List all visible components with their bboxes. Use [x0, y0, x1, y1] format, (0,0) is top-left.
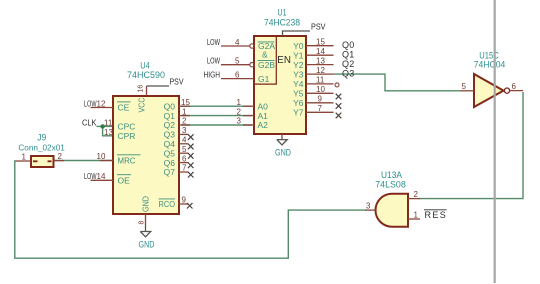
svg-text:2: 2	[58, 152, 63, 161]
power symbol PSV at U1	[283, 22, 326, 37]
svg-text:1: 1	[414, 210, 419, 219]
svg-text:5: 5	[462, 82, 467, 91]
svg-text:LOW: LOW	[84, 99, 97, 108]
U1 pin11 Y4 open end	[293, 76, 339, 90]
svg-text:Q0: Q0	[342, 40, 354, 50]
svg-text:3: 3	[182, 126, 187, 135]
wire Q1 U4 to U1 A1	[181, 115, 252, 117]
U1 pin8 GND and ground symbol	[275, 134, 291, 157]
U4 pin3 Q3 no-connect	[164, 126, 194, 140]
junction CLK node	[100, 124, 104, 128]
wire Q2 U4 to U1 A2	[181, 124, 252, 126]
ground symbol below U4	[139, 224, 155, 250]
U4 pin12 CE	[84, 99, 131, 112]
svg-text:3: 3	[366, 201, 371, 210]
U4 pin11 CPC with CLK label	[82, 117, 135, 131]
svg-text:1: 1	[182, 107, 187, 116]
U4 pin6 Q6 no-connect	[164, 154, 194, 168]
svg-text:A2: A2	[258, 120, 269, 130]
U1 EN text	[277, 54, 291, 66]
U1 ampersand	[262, 50, 268, 60]
U1 pin6 G1	[204, 70, 270, 83]
svg-text:4: 4	[235, 38, 240, 47]
svg-text:16: 16	[138, 85, 145, 93]
svg-text:RCO: RCO	[159, 199, 176, 209]
J9 pin1	[16, 153, 32, 162]
svg-text:8: 8	[139, 221, 146, 225]
power symbol PSV at U4	[147, 77, 184, 87]
wire Q0 U4 to U1 A0	[181, 105, 252, 107]
svg-text:2: 2	[414, 190, 419, 199]
wire Y3/Q3 net to U15C input pin5	[334, 74, 461, 91]
svg-text:PSV: PSV	[311, 22, 326, 32]
U4 reference text	[140, 60, 150, 70]
svg-text:2: 2	[237, 107, 242, 116]
svg-text:10: 10	[316, 85, 325, 94]
svg-text:2: 2	[182, 117, 187, 126]
U13A pin1 input with RES label	[408, 210, 447, 220]
U1 pin3 A2	[237, 117, 269, 131]
wire J9 pin1 to U13A pin3 (left, bottom, up)	[15, 161, 366, 258]
J9 inner pin ticks	[33, 160, 52, 162]
svg-text:EN: EN	[277, 54, 291, 66]
J9 reference text	[37, 133, 46, 143]
U1 pin5 G2B	[207, 57, 275, 70]
U1 enable block box	[254, 36, 276, 84]
U13A value 74LS08	[375, 180, 406, 190]
svg-text:10: 10	[97, 152, 106, 161]
wire gray vertical bus right side	[494, 0, 496, 283]
svg-text:PSV: PSV	[170, 77, 184, 87]
U4 pin9 RCO no-connect	[159, 196, 193, 210]
U1 pin12 Y3 with label Q3	[293, 66, 354, 80]
svg-text:VCC: VCC	[137, 98, 147, 113]
svg-text:1: 1	[22, 153, 27, 162]
svg-text:74HC590: 74HC590	[127, 70, 165, 80]
J9 value Conn_02x01	[18, 143, 65, 153]
svg-text:GND: GND	[139, 240, 155, 250]
svg-text:15: 15	[316, 37, 325, 46]
svg-text:Y6: Y6	[293, 98, 304, 108]
inverter U15C 74HC04	[474, 74, 510, 107]
U1 reference text	[278, 7, 287, 17]
svg-text:GND: GND	[141, 196, 151, 212]
svg-text:3: 3	[237, 117, 242, 126]
svg-text:11: 11	[316, 76, 325, 85]
svg-text:15: 15	[181, 98, 190, 107]
U4 pin8 GND bottom	[139, 196, 151, 225]
U13A reference text	[381, 170, 402, 180]
svg-text:Q7: Q7	[164, 167, 176, 177]
wire U13A pin2 from U15C output	[419, 92, 523, 199]
U4 pin10 MRC	[97, 152, 141, 165]
svg-text:Y3: Y3	[293, 69, 304, 79]
svg-text:G1: G1	[258, 74, 270, 84]
U1 pin14 Y1 with label Q1	[293, 47, 354, 61]
svg-text:7: 7	[318, 104, 323, 113]
svg-text:1: 1	[237, 98, 242, 107]
svg-text:Y0: Y0	[293, 41, 304, 51]
U1 pin9 Y6 no-connect	[293, 95, 341, 109]
svg-text:5: 5	[182, 145, 187, 154]
svg-text:OE: OE	[118, 175, 131, 185]
wire CLK to U4 CPC with branch to CPR	[97, 126, 113, 135]
svg-text:9: 9	[318, 95, 323, 104]
U1 pin1 A0	[237, 98, 269, 112]
svg-text:HIGH: HIGH	[204, 70, 221, 79]
U4 value 74HC590	[127, 70, 165, 80]
svg-text:CE: CE	[118, 103, 130, 113]
svg-text:LOW: LOW	[207, 57, 220, 66]
svg-text:U4: U4	[140, 60, 150, 70]
svg-text:U1: U1	[278, 7, 287, 17]
svg-text:14: 14	[316, 47, 325, 56]
svg-text:G2B: G2B	[258, 60, 275, 70]
svg-text:14: 14	[97, 172, 106, 181]
svg-text:Y7: Y7	[293, 108, 304, 118]
U15C value 74HC04	[474, 59, 506, 69]
wire J9 pin2 to U4 MRC pin10	[54, 160, 112, 162]
svg-text:Y5: Y5	[293, 89, 304, 99]
IC U1 74HC238 body	[254, 36, 306, 134]
svg-text:U13A: U13A	[381, 170, 402, 180]
svg-text:Y2: Y2	[293, 60, 304, 70]
IC U4 74HC590 body	[113, 96, 179, 214]
U4 pin5 Q5 no-connect	[164, 145, 194, 159]
U4 pin14 OE	[84, 172, 131, 185]
U4 pin7 Q7 no-connect	[164, 164, 194, 178]
svg-text:&: &	[262, 50, 268, 60]
svg-text:12: 12	[316, 66, 325, 75]
svg-text:6: 6	[235, 70, 240, 79]
svg-text:4: 4	[182, 136, 187, 145]
svg-text:GND: GND	[275, 147, 291, 157]
svg-text:RES: RES	[425, 210, 448, 220]
U1 pin2 A1	[237, 107, 269, 121]
svg-text:6: 6	[182, 154, 187, 163]
U1 pin7 Y7 no-connect	[293, 104, 341, 118]
svg-text:CPR: CPR	[118, 131, 136, 141]
svg-text:Q2: Q2	[342, 59, 354, 69]
svg-text:J9: J9	[37, 133, 46, 143]
U4 pin13 CPR	[104, 128, 135, 141]
svg-text:74HC04: 74HC04	[474, 59, 506, 69]
U15C pin6 output	[510, 82, 523, 91]
svg-text:CLK: CLK	[82, 117, 97, 127]
svg-text:12: 12	[97, 99, 106, 108]
U15C pin5 input	[461, 82, 475, 91]
U1 pin13 Y2 with label Q2	[293, 56, 354, 70]
svg-text:6: 6	[512, 82, 517, 91]
U4 pin4 Q4 no-connect	[164, 136, 194, 150]
svg-text:5: 5	[235, 57, 240, 66]
U13A pin2 input	[408, 190, 420, 199]
U1 pin15 Y0 with label Q0	[293, 37, 354, 51]
svg-text:Q3: Q3	[342, 69, 354, 79]
svg-text:LOW: LOW	[207, 38, 220, 47]
U4 pin16 VCC vertical	[137, 85, 147, 113]
svg-text:MRC: MRC	[118, 155, 136, 165]
svg-text:11: 11	[104, 118, 113, 127]
U1 pin10 Y5 no-connect	[293, 85, 341, 99]
U13A pin3 output	[365, 201, 376, 210]
U4 pin1 Q1	[164, 107, 190, 121]
svg-text:13: 13	[316, 56, 325, 65]
svg-text:74LS08: 74LS08	[375, 180, 406, 190]
connector J9 Conn_02x01 body	[31, 156, 54, 167]
U1 value 74HC238	[264, 17, 300, 27]
svg-text:7: 7	[182, 164, 187, 173]
U15C reference text	[479, 51, 499, 61]
svg-text:9: 9	[182, 196, 187, 205]
U1 pin4 G2A	[207, 38, 275, 51]
svg-text:13: 13	[104, 128, 113, 137]
J9 pin2	[54, 152, 65, 161]
U4 pin15 Q0	[164, 98, 191, 112]
svg-text:74HC238: 74HC238	[264, 17, 300, 27]
svg-text:LOW: LOW	[84, 172, 97, 181]
svg-text:Conn_02x01: Conn_02x01	[18, 143, 65, 153]
U4 pin2 Q2	[164, 117, 190, 131]
AND gate U13A 74LS08 (mirrored)	[376, 194, 409, 227]
